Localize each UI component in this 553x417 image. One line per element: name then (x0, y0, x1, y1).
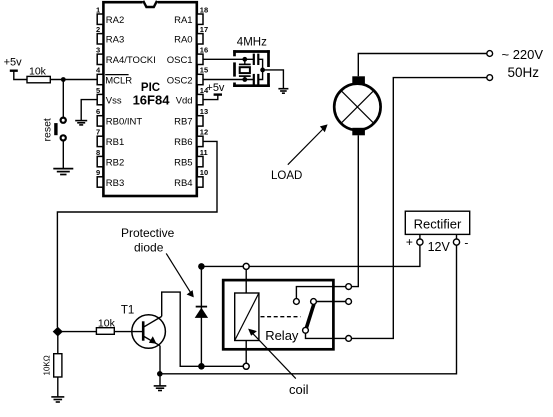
svg-text:RA4/TOCKI: RA4/TOCKI (106, 55, 156, 66)
wire T1 emitter down (159, 346, 161, 374)
svg-text:10KΩ: 10KΩ (43, 355, 52, 375)
wire 50Hz terminal to relay bottom terminal (352, 78, 487, 339)
wire base node to R2 (58, 331, 97, 333)
junction base node (diamond) (53, 327, 63, 337)
relay switch arm (306, 304, 314, 328)
pin 6 RB0/INT (96, 107, 142, 128)
wire R2 to T1 base (114, 331, 143, 333)
svg-text:+5v: +5v (206, 82, 225, 94)
wire rectifier plus stem (419, 234, 421, 239)
junction MCLR node (61, 77, 66, 82)
svg-text:diode: diode (134, 241, 164, 255)
junction emitter node (157, 371, 163, 377)
relay contact NO (to middle terminal) (311, 299, 317, 305)
svg-text:RA2: RA2 (106, 15, 124, 26)
pin 9 RB3 (96, 168, 124, 189)
resistor R3 10KΩ pull-down (54, 354, 62, 377)
wire rectifier minus to emitter node (160, 245, 457, 374)
wire Vss to ground (81, 100, 97, 121)
pin 8 RB2 (96, 148, 124, 169)
wire Vdd to +5v (204, 95, 218, 99)
svg-text:Relay: Relay (265, 328, 299, 343)
wire T1 collector to coil bottom line (162, 292, 244, 366)
pushbutton reset (54, 117, 67, 142)
resistor R1 10k pull-up (27, 76, 50, 82)
pin 16 OSC1 (167, 46, 208, 67)
svg-text:Vdd: Vdd (176, 95, 193, 106)
IC U1 PIC16F84 body (103, 2, 196, 196)
pin 5 Vss (96, 86, 122, 107)
svg-text:2: 2 (96, 25, 100, 34)
pin 7 RB1 (96, 128, 124, 149)
svg-text:Vss: Vss (106, 95, 122, 106)
junction OSC2 node (242, 77, 247, 82)
rectifier box (405, 211, 469, 234)
wire reset bottom to ground (62, 141, 64, 168)
svg-text:RB4: RB4 (174, 178, 192, 189)
pin 10 RB4 (174, 168, 208, 189)
svg-text:10: 10 (200, 168, 208, 177)
svg-text:13: 13 (200, 107, 208, 116)
svg-text:7: 7 (96, 128, 100, 137)
pin 2 RA3 (96, 25, 124, 46)
svg-text:5: 5 (96, 86, 100, 95)
wire C1 to osc ground node (259, 59, 263, 70)
power +5v rail (Vdd) (206, 82, 225, 94)
wire R1 to MCLR pin (50, 79, 97, 81)
junction D1 cathode node (198, 263, 205, 270)
relay terminal middle right (346, 299, 352, 305)
coil bottom terminal (243, 363, 249, 369)
svg-text:reset: reset (42, 118, 54, 141)
wire C2 to osc ground node (259, 70, 263, 80)
pin 18 RA1 (174, 5, 208, 26)
arrow label to load (288, 124, 328, 164)
terminal rectifier minus (453, 239, 459, 245)
svg-text:16: 16 (200, 46, 208, 55)
pin 14 Vdd (176, 86, 209, 107)
wire relay pivot to bottom terminal (306, 333, 346, 338)
wire osc node to ground (263, 70, 284, 88)
pin 4 MCLR (96, 66, 132, 87)
svg-text:RB7: RB7 (174, 117, 192, 128)
crystal network box (233, 50, 270, 87)
svg-text:10k: 10k (29, 66, 47, 78)
svg-text:RB1: RB1 (106, 137, 124, 148)
svg-text:RB3: RB3 (106, 178, 124, 189)
terminal rectifier plus (417, 239, 423, 245)
wire coil top terminal stem (245, 269, 247, 293)
ground (reset) (53, 169, 73, 175)
pin 15 OSC2 (167, 66, 208, 87)
ground (crystal) (278, 89, 288, 94)
svg-text:RB6: RB6 (174, 137, 192, 148)
svg-text:18: 18 (200, 5, 208, 14)
wire reset switch to ground (62, 80, 64, 118)
wire relay NC contact to top terminal (296, 287, 345, 299)
dashed link coil to switch (261, 316, 301, 318)
capacitor C1 (254, 54, 258, 65)
wire coil bottom terminal stem (245, 341, 247, 364)
pin 1 RA2 (96, 5, 124, 26)
wire OSC1 to crystal network (204, 58, 254, 60)
relay contact NC (to top terminal) (294, 299, 300, 305)
svg-text:15: 15 (200, 66, 208, 75)
wire relay NO contact to middle terminal (316, 301, 345, 303)
svg-text:6: 6 (96, 107, 100, 116)
crystal X1 (239, 59, 251, 79)
wire +12V line from diode to rectifier plus (201, 245, 420, 266)
svg-text:LOAD: LOAD (271, 170, 302, 182)
relay terminal bottom right (346, 336, 352, 342)
coil top terminal (243, 263, 249, 269)
wire base node to R3 (57, 332, 59, 354)
svg-text:MCLR: MCLR (105, 75, 132, 86)
svg-text:+5v: +5v (4, 57, 23, 69)
svg-text:8: 8 (96, 148, 100, 157)
pin 3 RA4/TOCKI (96, 46, 156, 67)
ground (Vss) (75, 121, 87, 125)
svg-text:1: 1 (96, 5, 100, 14)
svg-text:OSC1: OSC1 (167, 55, 193, 66)
terminal ~220V (487, 51, 493, 57)
svg-text:11: 11 (200, 148, 208, 157)
pin 12 RB6 (174, 128, 208, 149)
svg-text:RB2: RB2 (106, 157, 124, 168)
wire emitter ground stem (159, 374, 161, 386)
wire motor bottom to relay top terminal (352, 135, 359, 286)
svg-text:OSC2: OSC2 (167, 75, 193, 86)
svg-text:Rectifier: Rectifier (414, 217, 462, 232)
svg-text:~ 220V: ~ 220V (502, 47, 544, 62)
junction D1 anode node (198, 363, 205, 370)
diode D1 cathode bar (196, 306, 207, 308)
wire R3 to ground (57, 377, 59, 397)
wire motor top to 220V terminal (358, 54, 487, 77)
svg-text:16F84: 16F84 (133, 93, 171, 108)
svg-text:4MHz: 4MHz (237, 36, 267, 48)
terminal 50Hz (487, 75, 493, 81)
pin 11 RB5 (174, 148, 208, 169)
svg-text:4: 4 (96, 66, 101, 75)
svg-text:-: - (464, 235, 468, 249)
relay terminal top right (346, 284, 352, 290)
IC notch (143, 0, 158, 7)
svg-text:RA3: RA3 (106, 35, 124, 46)
label Protective diode (121, 226, 175, 255)
svg-text:+: + (406, 235, 413, 249)
junction osc ground node (260, 68, 265, 73)
arrow label to diode (166, 253, 194, 297)
arrow label to coil (248, 329, 296, 379)
pin 17 RA0 (174, 25, 208, 46)
diode D1 protective (vertical wire anode-cathode) (200, 266, 202, 366)
svg-text:RB5: RB5 (174, 157, 192, 168)
power +5v rail (MCLR pull-up) (4, 57, 23, 71)
svg-text:50Hz: 50Hz (508, 65, 540, 80)
relay coil (235, 293, 259, 341)
diode D1 triangle (195, 308, 208, 318)
svg-text:12: 12 (200, 128, 208, 137)
ground (pull-down R3) (51, 397, 64, 402)
wire +5v stem to R1 (14, 72, 27, 80)
relay box (223, 280, 333, 349)
ground (emitter) (154, 386, 167, 391)
svg-text:RB0/INT: RB0/INT (106, 117, 143, 128)
resistor R2 10k base (96, 328, 114, 335)
capacitor C2 (254, 74, 258, 85)
svg-text:3: 3 (96, 46, 100, 55)
pin 13 RB7 (174, 107, 208, 128)
wire RB6 to base node (57, 141, 217, 327)
motor M load (334, 76, 380, 135)
wire OSC2 to crystal network (204, 79, 254, 81)
svg-text:Protective: Protective (121, 226, 175, 240)
svg-text:coil: coil (289, 382, 309, 397)
svg-text:RA0: RA0 (174, 35, 192, 46)
IC name label PIC 16F84 (133, 82, 171, 108)
svg-text:RA1: RA1 (174, 15, 192, 26)
svg-text:12V: 12V (428, 240, 451, 254)
wire rectifier minus stem (456, 234, 458, 239)
svg-text:17: 17 (200, 25, 208, 34)
transistor T1 (132, 315, 166, 349)
svg-text:T1: T1 (121, 304, 134, 316)
svg-text:9: 9 (96, 168, 100, 177)
relay common pivot contact (303, 327, 309, 333)
svg-text:10k: 10k (98, 317, 116, 329)
junction OSC1 node (242, 57, 247, 62)
